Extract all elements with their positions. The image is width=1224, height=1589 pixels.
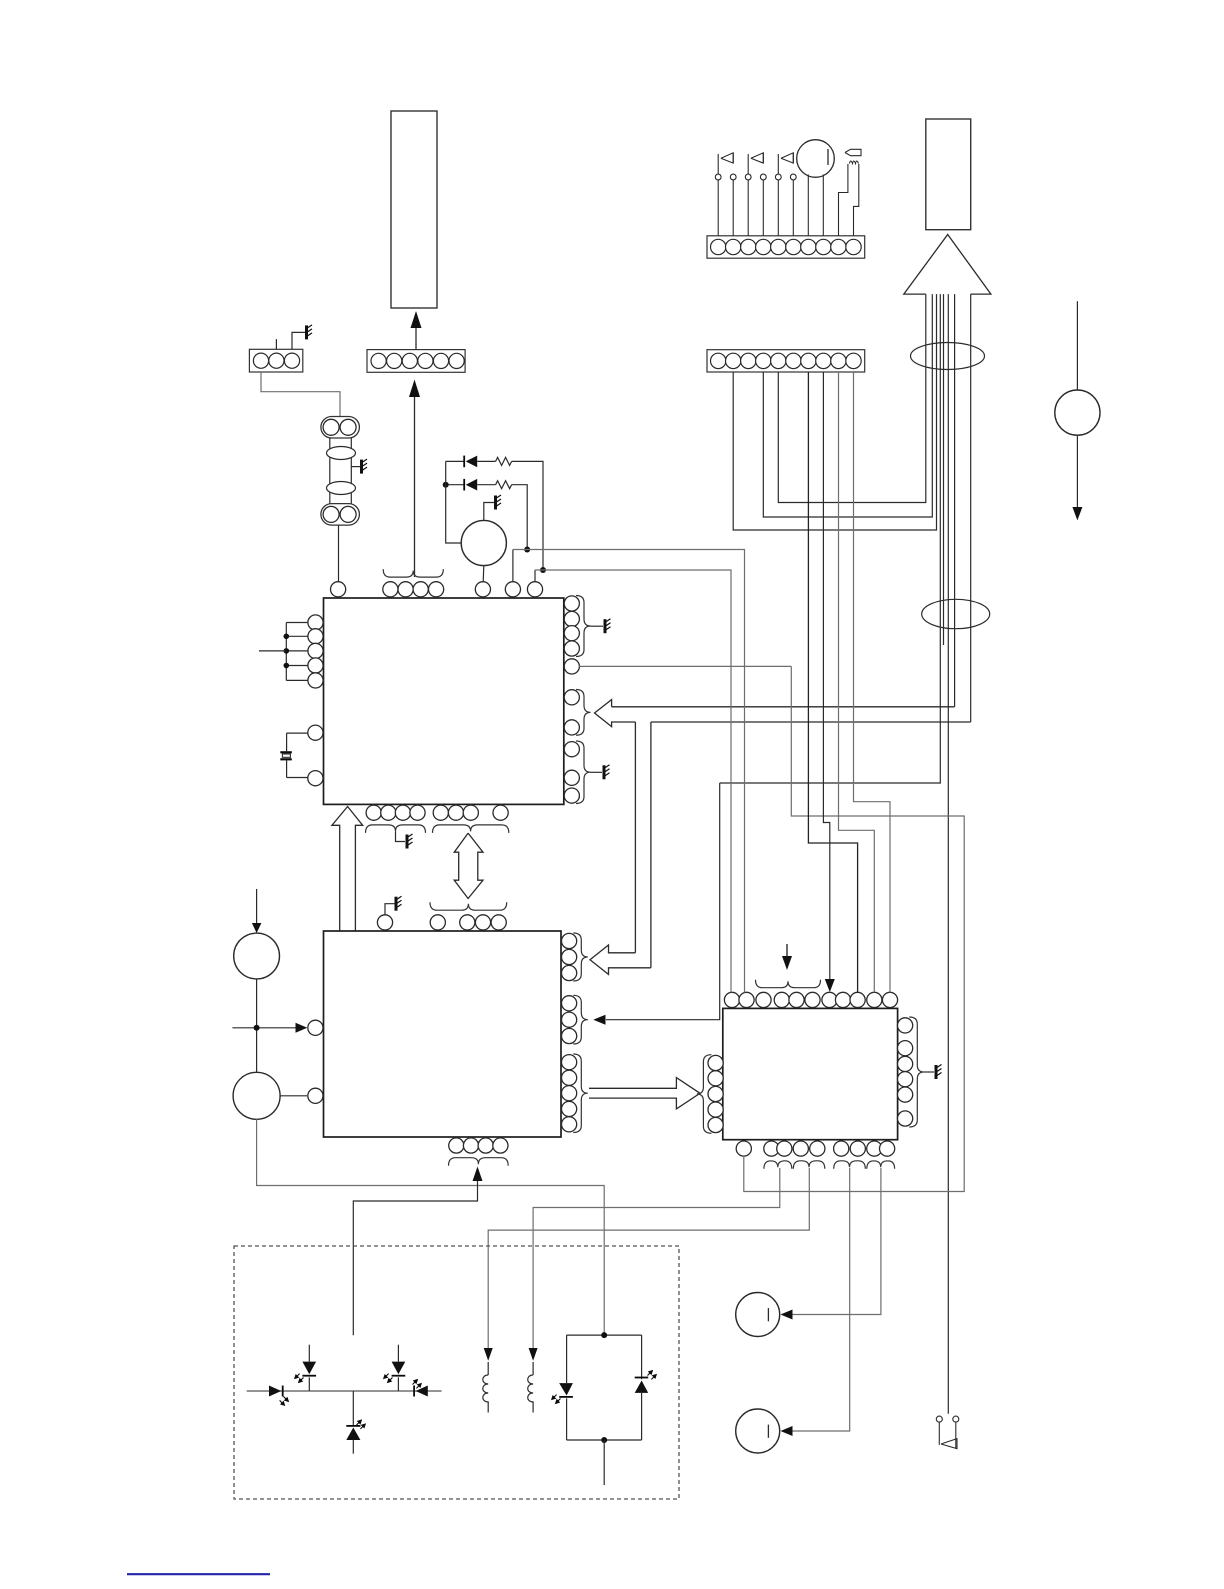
ground (M2): [496, 495, 502, 510]
S1 pin 7: [801, 239, 816, 254]
T1 winding body: [329, 438, 331, 504]
LED DB emission: [295, 1374, 304, 1383]
S1 pin 3: [741, 239, 756, 254]
IC1 right single pin wire to IC3 bottom net: [564, 659, 579, 674]
brace IC2 right B: [573, 995, 588, 1044]
LED DA emission: [280, 1397, 289, 1406]
brace IC3 bottom 3: [834, 1161, 866, 1169]
T1 ground tap: [351, 466, 360, 468]
IC1 right pins group B (2) - bus arrow in: [564, 690, 579, 705]
wire into E1: [256, 889, 258, 923]
big hollow arrow H5 IC2 to IC1: [332, 807, 363, 932]
LED DC emission: [384, 1374, 393, 1383]
brace IC1 bottom 1: [366, 825, 426, 833]
inductor L1 (left coil): [484, 1348, 493, 1361]
branch pair down to IC2 arrow H3: [634, 722, 636, 953]
wire D2-R2: [477, 484, 495, 486]
LED DF on left branch (points down): [566, 1335, 568, 1383]
motor C1 (capstan): [736, 1293, 780, 1337]
staircase S2 pin7 to IC3 (dark): [808, 372, 857, 993]
CN2 pin 6: [449, 353, 464, 368]
ground (T1): [362, 459, 368, 474]
bus h5: IC1 pin to IC3 pin 1: [535, 570, 731, 993]
CN1 pin 2: [269, 353, 284, 368]
LED DB branch (points down): [308, 1345, 310, 1362]
IC1 bottom pin 8: [493, 805, 508, 820]
S2 pin 3: [741, 353, 756, 368]
IC1 bottom pins group 2: [433, 805, 448, 820]
S2 pin 9: [831, 353, 846, 368]
brace IC2 right C: [573, 1054, 588, 1133]
wire IC3 brace3 to motor C2: [784, 1168, 850, 1431]
wire K a: [839, 164, 848, 236]
stub below loop: [603, 1440, 605, 1485]
wire h9: [579, 665, 791, 667]
ground (IC3 right): [936, 1065, 942, 1080]
IC2 right pins group A (3) - arrow H3 in: [562, 933, 577, 948]
IC1 right pins group A (4) to ground: [564, 596, 579, 611]
brace IC2 right A: [573, 933, 588, 981]
junction node (D2 row): [443, 482, 449, 488]
diode D1: [466, 456, 478, 468]
wire E2 to IC2 pin2: [280, 1095, 307, 1097]
brace IC3 bottom 4: [867, 1161, 895, 1169]
ground (CN1): [307, 325, 313, 340]
IC3 right pins (6) to ground: [898, 1018, 913, 1033]
wire CN1 pin1 to line filter T1: [261, 372, 340, 417]
IC2 right pins group C (5) - arrow H4 out: [562, 1055, 577, 1070]
wire R1 to node: [512, 461, 543, 568]
IC1 main block (system control): [324, 598, 564, 804]
motor M2 (circle above IC1): [461, 520, 506, 565]
dashed indicator box: [234, 1246, 679, 1499]
wire into IC2 left pin1 with arrow: [232, 1027, 296, 1029]
wire CN1 pin3 to ground: [292, 332, 305, 349]
motor C2 (reel): [736, 1409, 780, 1453]
IC3 main block (driver): [723, 1008, 898, 1139]
crystal X1: [280, 751, 292, 753]
T1 winding ellipse 1: [327, 447, 356, 460]
left circle E2 (sensor bottom): [233, 1072, 280, 1119]
wire W_B from h6 into IC2 B: [606, 783, 720, 1020]
LED DF emission: [552, 1395, 561, 1404]
cable ellipse E1: [911, 343, 985, 370]
S1 pin 2: [726, 239, 741, 254]
CN2 pin 3: [402, 353, 417, 368]
idler circle (far right): [1055, 390, 1100, 435]
K coil: [850, 161, 859, 164]
S1 pin 8: [816, 239, 831, 254]
diode D2: [466, 479, 478, 491]
double arrow H6 between IC1 and IC2: [454, 833, 483, 898]
S2 pin 6: [786, 353, 801, 368]
S2 pin 2: [726, 353, 741, 368]
staircase S2 pin8 to IC3 arrow pin: [823, 372, 829, 980]
bundle stub line: [943, 294, 945, 645]
LED DE emission: [357, 1420, 366, 1429]
ground (IC1 right C): [604, 765, 610, 780]
LED DD emission: [413, 1380, 422, 1389]
bundle outer left edge, turns to S2 pin5: [778, 294, 926, 502]
CN1 pin 3: [284, 353, 299, 368]
switch SW1: [717, 180, 719, 236]
CN2 pin 2: [387, 353, 402, 368]
brace IC2 top: [430, 902, 507, 910]
S1 pin 9: [831, 239, 846, 254]
bundle line to h6 (IC2-B feed): [720, 294, 941, 783]
brace IC1 right B: [576, 690, 591, 736]
wire diode row 2: [446, 484, 464, 486]
ground (IC1 bottom): [407, 834, 413, 849]
wire M1 pin b: [822, 175, 824, 236]
ground (IC1 right A): [605, 619, 611, 634]
inductor L2 (right coil): [529, 1348, 538, 1361]
arrowhead into E1: [252, 923, 262, 933]
T1 pin b: [340, 419, 356, 435]
IC1 left pins group 1: [308, 615, 323, 630]
S1 pin 6: [786, 239, 801, 254]
wire E1-E2 vertical: [256, 979, 258, 1072]
wire diode row 1: [446, 460, 464, 462]
blue reference line (bottom left): [127, 1573, 270, 1575]
IC2 main block (servo/DSP): [324, 931, 562, 1137]
staircase S2 pin10 to IC3: [854, 372, 891, 993]
stub above CN1 pin2: [275, 339, 277, 349]
bundle line to S2 pin4: [763, 294, 932, 517]
wire IC2 pin1 to ground: [385, 904, 395, 915]
brace IC3 right: [909, 1017, 924, 1127]
T1 pin c: [323, 506, 339, 522]
sensor K (leaf contact): [845, 149, 861, 155]
IC2 right pins group B (3) - signal arrow in: [562, 996, 577, 1011]
staircase S2 pin9 to IC3: [839, 372, 875, 993]
LED DC branch (points down): [397, 1345, 399, 1362]
IC3 left pins (5) - arrow H4 in: [708, 1055, 723, 1070]
brace IC3 bottom 2: [793, 1161, 825, 1169]
brace IC2 bottom: [449, 1158, 509, 1166]
motor M1 (loading motor): [797, 140, 835, 178]
bus h4: IC1 pin to IC3 top pin 2: [513, 550, 745, 993]
IC1 right pins group C (3) to ground: [564, 742, 579, 757]
wire E2 bottom to LED block: [257, 1119, 605, 1333]
arrowhead into IC2 pin1: [296, 1023, 308, 1033]
H2 shaft top edge: [612, 706, 955, 708]
brace IC3 top: [756, 980, 821, 988]
connector strip S1 (10-pin): [707, 236, 865, 258]
wire IC1 pin to bus h5: [534, 570, 536, 582]
junction bottom of loop: [601, 1437, 607, 1443]
IC1 top pins: [331, 582, 346, 597]
wire M2 to IC1 pin: [482, 566, 485, 583]
arrow A4 wire from LED block to IC2 bottom: [473, 1167, 483, 1182]
wire brace to ground: [396, 832, 406, 842]
H2 shaft bottom edge: [651, 721, 971, 723]
T1 pin a: [323, 419, 339, 435]
IC2 left pin 2: [308, 1088, 323, 1103]
block (top right, tape mechanism): [926, 119, 971, 230]
LED DG emission: [648, 1371, 657, 1380]
bundle line to H2 shaft top: [954, 294, 956, 707]
wire IC3 brace2 to L1: [488, 1168, 809, 1348]
S1 pin 4: [756, 239, 771, 254]
bundle outer right edge to H2 shaft bottom: [970, 294, 972, 722]
wire T1 to IC1 pin T1: [338, 525, 340, 582]
arrow out of idler circle: [1076, 436, 1078, 509]
LED bus (horizontal): [247, 1390, 442, 1392]
connector strip S2 (10-pin): [707, 350, 865, 372]
CN1 pin 1: [253, 353, 268, 368]
S1 pin 1: [711, 239, 726, 254]
line filter T1 (bottom capsule): [321, 504, 360, 525]
junction node (R1/IC1 pin): [540, 567, 546, 573]
hollow arrow H2 into IC1 (from main bundle): [595, 700, 636, 727]
arrowhead onto IC3 pin: [825, 979, 835, 992]
CN2 pin 4: [418, 353, 433, 368]
connector CN2 (6-pin): [367, 350, 465, 373]
wire IC3 brace4 to motor C1: [784, 1168, 881, 1315]
S2 pin 8: [816, 353, 831, 368]
S2 pin 1: [711, 353, 726, 368]
S2 pin 4: [756, 353, 771, 368]
LED DA (points right): [269, 1386, 281, 1397]
wire into pinch block (far right): [1076, 301, 1078, 389]
block: tall display block (top left): [391, 111, 437, 308]
IC2 bottom pins: [449, 1138, 464, 1153]
wire diode loop left side: [446, 461, 462, 543]
arrowhead into C2: [781, 1426, 793, 1436]
switch SW3: [777, 180, 779, 236]
IC2 left pin 1: [308, 1020, 323, 1035]
wire M1 pin a: [807, 175, 809, 236]
S2 pin 10: [846, 353, 861, 368]
wire M2 to ground: [484, 503, 494, 521]
IC3 top pins: [724, 992, 739, 1007]
arrowhead into C1: [781, 1310, 793, 1320]
wire R2 to node: [512, 485, 528, 548]
S1 pin 10: [846, 239, 861, 254]
brace IC3 left: [697, 1055, 712, 1134]
LED DD (points left): [416, 1386, 428, 1397]
IC2 top pins: [377, 915, 392, 930]
long arrow IC1 top group to CN2: [414, 397, 416, 577]
resistor R2: [496, 481, 512, 489]
CN2 pin 1: [371, 353, 386, 368]
wire D1-R1: [477, 460, 495, 462]
IC3 bottom pins: [736, 1141, 751, 1156]
brace IC3 bottom 1: [764, 1161, 792, 1169]
junction top of loop: [601, 1332, 607, 1338]
IC1 left bus: [285, 623, 287, 681]
S2 pin 7: [801, 353, 816, 368]
S1 pin 5: [771, 239, 786, 254]
arrow CN2 to display block: [415, 328, 417, 350]
wire IC3 brace1 to L2: [533, 1168, 780, 1348]
bundle line to power switch: [947, 294, 949, 1414]
S2 pin 5: [771, 353, 786, 368]
cable ellipse E2: [922, 599, 990, 628]
IC1 left pins group 2 with crystal X1: [308, 725, 323, 740]
hollow arrow H3 into IC2: [590, 945, 651, 974]
switch SW2: [747, 180, 749, 236]
brace IC1 right C: [576, 741, 591, 804]
bundle line to S2 pin2: [733, 294, 936, 530]
junction node (R2/IC1 pin): [524, 547, 530, 553]
junction (E wire): [254, 1025, 260, 1031]
line filter T1 (top capsule): [321, 417, 360, 439]
arrow A5 onto IC3 brace: [786, 944, 788, 957]
brace IC1 right A: [576, 596, 591, 657]
big hollow arrow H1 (bundle up): [904, 235, 991, 295]
power switch S10 (bottom right): [936, 1416, 942, 1422]
ground (IC2 top): [396, 896, 402, 911]
brace IC1 top group: [383, 569, 443, 577]
back-to-back LED pair loop: [567, 1334, 642, 1336]
CN2 pin 5: [433, 353, 448, 368]
arrowhead into IC2 B: [593, 1015, 605, 1025]
connector CN1 (3-pin, top left): [249, 349, 302, 372]
hollow arrow H4 out of IC2 into IC3: [589, 1078, 700, 1109]
T1 winding ellipse 2: [327, 482, 356, 495]
wire IC1 pin to bus h4: [512, 550, 514, 583]
LED DE branch (points up): [352, 1391, 354, 1426]
resistor R1: [496, 457, 512, 465]
IC1 bottom pins group 1: [366, 805, 381, 820]
bus h8: single-pin / IC3 bottom net: [744, 666, 964, 1191]
LED DG on right branch (points up): [641, 1335, 643, 1379]
stub left of IC1 bus: [259, 650, 286, 652]
left circle E1 (sensor top): [234, 933, 280, 979]
brace IC1 bottom 2: [433, 825, 509, 833]
wire K b: [854, 164, 859, 236]
T1 pin d: [340, 506, 356, 522]
